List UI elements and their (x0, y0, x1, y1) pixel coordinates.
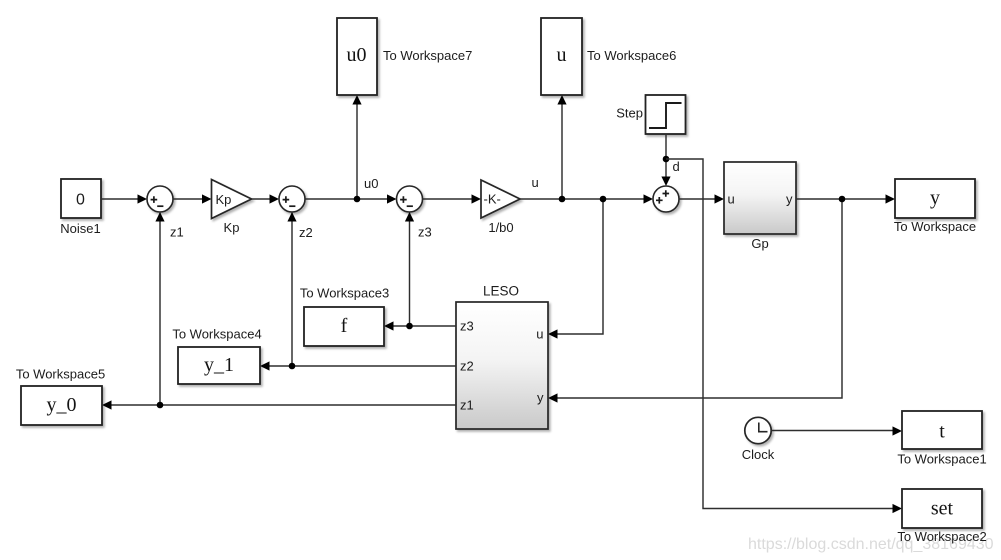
watermark (748, 536, 994, 553)
svg-text:t: t (939, 421, 945, 443)
node label u0 (364, 176, 378, 191)
To Workspace2 block set (897, 489, 986, 544)
To Workspace block y (894, 179, 976, 234)
sum junction S1 (z1 feedback) (147, 186, 173, 212)
svg-text:To Workspace6: To Workspace6 (587, 48, 676, 63)
svg-text:y_1: y_1 (204, 354, 234, 376)
svg-text:u: u (557, 44, 567, 66)
wire Gp to To Workspace y with branch down (796, 194, 895, 203)
wire branch down to LESO y input (548, 199, 842, 403)
svg-text:To Workspace5: To Workspace5 (16, 367, 105, 382)
Clock block (742, 417, 775, 462)
node label z3 (418, 225, 432, 240)
svg-text:To Workspace2: To Workspace2 (897, 529, 986, 544)
wire gain 1/b0 to sum S4 with branches (520, 194, 653, 203)
svg-text:u0: u0 (364, 176, 378, 191)
wire branch down to LESO u input (548, 199, 603, 339)
svg-text:u0: u0 (347, 44, 367, 66)
To Workspace7 block u0 (337, 18, 472, 95)
wire Noise1 to sum z1 (101, 194, 147, 203)
svg-text:u: u (536, 327, 543, 342)
svg-text:Step: Step (616, 106, 643, 121)
svg-text:To Workspace3: To Workspace3 (300, 286, 389, 301)
wire sum z1 to gain Kp (173, 194, 212, 203)
To Workspace6 block u (541, 18, 676, 95)
wire LESO z1 to y_0 workspace (102, 400, 456, 409)
svg-text:Clock: Clock (742, 447, 775, 462)
svg-text:u: u (532, 175, 539, 190)
svg-text:f: f (341, 315, 348, 337)
wire z1 branch up to sum S1 (155, 212, 164, 405)
node label u (532, 175, 539, 190)
wire Clock to t workspace (771, 426, 902, 435)
wire sum z3 to gain 1/b0 (423, 194, 482, 203)
sum junction S4 (plant input) (653, 186, 679, 212)
junction dot on u line (600, 196, 607, 203)
constant block Noise1 (60, 179, 101, 236)
subsystem LESO (456, 284, 548, 430)
svg-text:z2: z2 (299, 225, 313, 240)
subsystem Gp (724, 162, 796, 251)
sum junction S3 (z3 feedback) (397, 186, 423, 212)
svg-text:z3: z3 (418, 225, 432, 240)
wire LESO z3 to f workspace (384, 321, 456, 330)
To Workspace4 block y_1 (172, 327, 261, 385)
wire sum z2 to sum z3 with branch up to u0 scope (305, 194, 397, 203)
node u0 junction dot (354, 196, 361, 203)
junction dot z3 (406, 323, 413, 330)
svg-text:Kp: Kp (224, 220, 240, 235)
node u junction dot (559, 196, 566, 203)
svg-text:0: 0 (76, 192, 85, 209)
wire branch up to To Workspace6 (557, 95, 566, 199)
svg-text:To Workspace4: To Workspace4 (172, 327, 261, 342)
svg-text:Kp: Kp (216, 192, 232, 207)
gain 1/b0 (-K-) (481, 180, 520, 235)
Step block (616, 95, 685, 134)
svg-text:To Workspace7: To Workspace7 (383, 48, 472, 63)
junction dot z1 (157, 402, 164, 409)
junction dot on y line (839, 196, 846, 203)
svg-text:z2: z2 (460, 359, 474, 374)
svg-text:y_0: y_0 (47, 394, 77, 416)
svg-text:z1: z1 (170, 225, 184, 240)
wire gain Kp to sum z2 (252, 194, 280, 203)
wire branch up to To Workspace7 (352, 95, 361, 199)
svg-text:LESO: LESO (483, 284, 519, 299)
wire z2 branch up to sum S2 (287, 212, 296, 366)
gain Kp (212, 180, 252, 236)
svg-text:y: y (930, 187, 940, 209)
wire Step down to sum S4 (661, 134, 670, 186)
wire sum S4 to Gp (679, 194, 724, 203)
svg-text:Noise1: Noise1 (60, 221, 100, 236)
node label z1 (170, 225, 184, 240)
svg-text:y: y (537, 390, 544, 405)
svg-text:z3: z3 (460, 319, 474, 334)
node d junction dot (663, 156, 670, 163)
svg-text:u: u (728, 192, 735, 207)
svg-text:z1: z1 (460, 398, 474, 413)
wire branch from d to set workspace (666, 159, 902, 513)
To Workspace1 block t (897, 411, 986, 467)
sum junction S2 (z2 feedback) (279, 186, 305, 212)
To Workspace5 block y_0 (16, 367, 105, 426)
svg-text:-K-: -K- (484, 192, 501, 207)
node label z2 (299, 225, 313, 240)
node label d (673, 159, 680, 174)
wire z3 branch up to sum S3 (405, 212, 414, 326)
junction dot z2 (289, 363, 296, 370)
svg-text:Gp: Gp (751, 236, 768, 251)
wire LESO z2 to y_1 workspace (260, 361, 456, 370)
svg-text:d: d (673, 159, 680, 174)
svg-text:To Workspace1: To Workspace1 (897, 452, 986, 467)
svg-text:To Workspace: To Workspace (894, 219, 976, 234)
svg-text:1/b0: 1/b0 (488, 220, 513, 235)
svg-text:set: set (931, 498, 954, 520)
To Workspace3 block f (300, 286, 389, 347)
svg-text:y: y (786, 192, 793, 207)
